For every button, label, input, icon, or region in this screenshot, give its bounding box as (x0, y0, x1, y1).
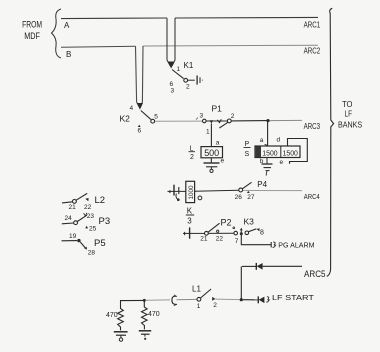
relay contact K1 arrow pin 1 (168, 62, 175, 69)
svg-text:500: 500 (204, 148, 219, 158)
jack P1 tip junction (210, 120, 214, 123)
ground under P/S (262, 163, 273, 165)
pin a tick of P/S (265, 144, 268, 145)
ground hook at K/3 (176, 194, 178, 200)
svg-text:22: 22 (216, 236, 224, 243)
svg-text:4: 4 (130, 105, 134, 112)
svg-text:ARC4: ARC4 (304, 192, 320, 201)
svg-text:1000: 1000 (188, 185, 195, 200)
svg-text:21: 21 (69, 204, 77, 211)
wire drop from bus A to K1 (left) (167, 18, 170, 66)
svg-text:MDF: MDF (24, 31, 40, 41)
lamp K/3 box 1000 (186, 181, 195, 202)
junction node diodes (240, 298, 243, 301)
bus TO LF BANKS vertical (327, 8, 334, 276)
svg-text:25: 25 (89, 226, 97, 233)
resistor R2 470 (142, 300, 148, 329)
svg-text:1500: 1500 (262, 148, 277, 157)
svg-text:P3: P3 (99, 216, 111, 227)
label FROM MDF (22, 19, 42, 41)
relay contact K3 blade (249, 229, 257, 232)
wire P2 to K3 (209, 232, 234, 234)
ground under R2 (139, 330, 151, 332)
svg-text:LF: LF (345, 109, 353, 119)
svg-text:FROM: FROM (22, 19, 42, 29)
pin tick under P2 label (233, 227, 235, 229)
svg-text:21: 21 (200, 236, 208, 243)
svg-text:e: e (221, 158, 225, 165)
svg-text:3: 3 (187, 217, 192, 226)
diode CR2 to LF START (257, 296, 259, 303)
svg-text:24: 24 (65, 215, 73, 222)
svg-text:PG ALARM: PG ALARM (278, 240, 314, 249)
relay contact K3 circle (234, 231, 238, 235)
svg-text:1: 1 (197, 303, 201, 310)
bus A wire left segment (61, 17, 167, 20)
svg-text:K3: K3 (244, 217, 255, 227)
K3 armature arrow up (240, 230, 242, 233)
relay contact K2 blade (141, 111, 151, 120)
battery cell at K/3 (173, 185, 175, 196)
ground under L/2 (204, 162, 220, 164)
svg-text:23: 23 (87, 213, 95, 220)
svg-text:2: 2 (231, 113, 235, 120)
relay contact P4 blade (242, 182, 251, 189)
svg-text:K1: K1 (184, 61, 194, 70)
junction node at ARC3 (266, 119, 269, 122)
wire P1 pin3 to pin2 (206, 120, 227, 122)
svg-text:d: d (277, 137, 281, 144)
svg-text:1: 1 (177, 66, 181, 73)
wire P4 to ARC4 (243, 189, 302, 191)
svg-text:K: K (187, 207, 193, 216)
svg-text:K2: K2 (120, 114, 131, 124)
bus A wire right segment (175, 16, 318, 19)
wire to diode ARC5 (242, 265, 256, 267)
svg-text:22: 22 (84, 204, 92, 211)
switch L1 pin1 circle (197, 297, 201, 301)
pin a tick before P1 (196, 118, 198, 120)
wire junction to diode LF START (243, 299, 258, 301)
svg-text:8: 8 (260, 230, 264, 237)
diode CR1 to ARC5 (255, 263, 257, 270)
svg-text:26: 26 (235, 194, 243, 201)
resistor R1 470 (118, 301, 124, 331)
coil L/2 box 500 (201, 147, 223, 158)
svg-text:28: 28 (88, 250, 96, 257)
wire P1 pin1 down to L/2 coil (210, 124, 212, 147)
svg-text:L2: L2 (95, 195, 106, 206)
svg-text:27: 27 (247, 194, 255, 201)
bus B wire right segment (143, 44, 318, 47)
wire L1 to junction (215, 298, 240, 301)
jack P1 pin3 circle (203, 119, 207, 123)
svg-text:7: 7 (235, 238, 239, 245)
brace left of bus A/B (52, 9, 62, 58)
connector mark C (172, 296, 177, 304)
wire rise from K1 to bus A (right) (172, 18, 175, 66)
svg-text:ARC3: ARC3 (304, 122, 321, 131)
wire junction down to P/S coil (267, 121, 269, 146)
wire rise from K2 to bus B (right) (141, 46, 143, 107)
wire drop from bus B to K2 (left) (136, 46, 140, 106)
wire K2 pin5 to P1 pin3 (155, 120, 202, 122)
K3 pin8 arrow and labels (257, 228, 260, 231)
jack P1 spring contact mark (217, 119, 221, 122)
wire to K/3 lamp battery tick (169, 190, 171, 193)
svg-text:L1: L1 (192, 285, 201, 294)
svg-text:1: 1 (206, 129, 210, 136)
svg-text:P5: P5 (94, 238, 106, 249)
svg-text:3: 3 (171, 88, 175, 95)
svg-text:1500: 1500 (283, 148, 298, 157)
relay contact L2 (62, 202, 72, 203)
bus B wire left segment (61, 46, 136, 47)
svg-text:P2: P2 (221, 218, 232, 228)
junction node R2 (143, 299, 146, 302)
svg-text:2: 2 (213, 302, 217, 309)
svg-text:3: 3 (200, 113, 204, 120)
wire junction to ARC3 (270, 119, 303, 121)
relay contact K2 pin5 circle (151, 119, 155, 123)
svg-text:470: 470 (106, 312, 118, 319)
relay contact K1 pin 2 circle (184, 78, 188, 82)
wire C to L1 (177, 298, 197, 300)
wire resistor bus bottom (120, 299, 144, 301)
relay contact K2 arrow pin 4 (137, 103, 143, 110)
jack P1 blade pin2 (219, 122, 228, 128)
wire battery to P2 (190, 232, 204, 234)
svg-text:LF START: LF START (272, 293, 314, 302)
wire K3 down to PG ALARM (241, 234, 271, 245)
svg-text:P1: P1 (212, 104, 223, 114)
wire vertical diode branch (240, 266, 242, 299)
relay contact P2 blade (208, 223, 220, 232)
svg-text:2: 2 (190, 154, 194, 161)
relay contact P2 pin21 circle (205, 231, 209, 235)
svg-text:P4: P4 (257, 180, 267, 189)
wire K1 pin2 to battery (188, 79, 195, 81)
wire diode to ARC5 (263, 265, 302, 267)
svg-text:TO: TO (342, 99, 353, 109)
jack P1 pin2 circle (227, 119, 231, 123)
svg-text:2: 2 (186, 84, 190, 91)
svg-text:ARC5: ARC5 (304, 269, 326, 279)
svg-text:6: 6 (138, 128, 142, 135)
squiggle before PG ALARM (273, 242, 276, 247)
ground under R1 (114, 331, 128, 333)
relay contact K3 pivot circle (245, 231, 249, 235)
wire P1 pin2 to junction (231, 120, 268, 122)
switch L1 blade (201, 289, 212, 298)
svg-text:470: 470 (148, 311, 160, 318)
squiggle before LF START (266, 297, 269, 302)
svg-text:P: P (245, 141, 250, 148)
wire loop P/S pin d to pin e (288, 139, 308, 164)
svg-text:a: a (260, 137, 264, 144)
battery cell at K1 (196, 76, 198, 85)
junction node at K3 (240, 232, 243, 235)
wire L/2 pin e to ground (210, 158, 212, 163)
svg-text:e: e (280, 159, 284, 166)
svg-text:a: a (216, 140, 220, 147)
svg-text:S: S (245, 151, 250, 158)
wire K/3 box to P4 (195, 190, 239, 191)
svg-text:19: 19 (69, 233, 77, 240)
svg-text:ARC2: ARC2 (304, 46, 321, 55)
svg-text:A: A (64, 21, 70, 30)
svg-text:BANKS: BANKS (338, 120, 362, 130)
relay contact P4 pin26 circle (239, 188, 243, 192)
L1 pin2 arrow (212, 297, 215, 301)
svg-text:5: 5 (154, 114, 158, 121)
svg-text:B: B (66, 50, 71, 59)
pin circle right of K/3 box (198, 196, 202, 200)
coil P/S box 1500 1500 (255, 146, 300, 158)
relay contact K1 blade (172, 70, 184, 79)
wire P/S pin b to ground (266, 158, 268, 164)
svg-text:ARC1: ARC1 (304, 20, 321, 29)
battery tick at P2 (184, 232, 186, 235)
